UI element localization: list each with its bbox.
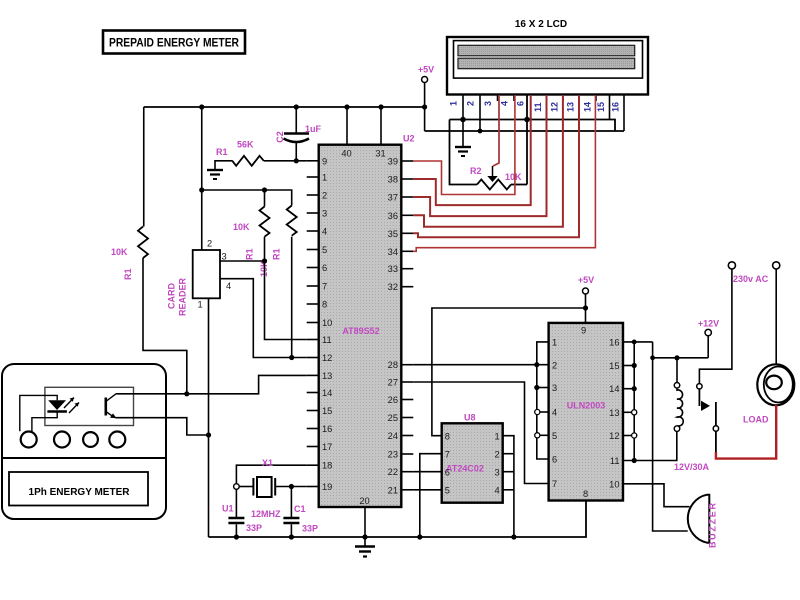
svg-text:6: 6 xyxy=(445,468,450,478)
wire LCD pin15 xyxy=(609,95,611,120)
svg-text:5: 5 xyxy=(552,431,557,441)
svg-text:U8: U8 xyxy=(464,413,476,423)
svg-text:U2: U2 xyxy=(403,134,415,144)
wire MCU pin20 to gnd xyxy=(364,507,366,546)
svg-text:C2: C2 xyxy=(275,131,285,143)
wire eeprom pins 1-4 to gnd xyxy=(503,436,514,537)
capacitor U1 33P xyxy=(222,489,262,537)
LCD pin labels 1 2 3 4 6 11 12 13 14 15 16 xyxy=(449,101,621,112)
svg-text:16 X 2 LCD: 16 X 2 LCD xyxy=(515,19,567,30)
wire +5V branch to eeprom pin8 xyxy=(432,308,586,436)
wire left pullup branch from +5V rail xyxy=(143,107,145,227)
svg-text:14: 14 xyxy=(322,388,332,398)
svg-text:13: 13 xyxy=(609,408,619,418)
optocoupler box xyxy=(45,387,134,425)
svg-text:U1: U1 xyxy=(222,504,234,514)
svg-text:6: 6 xyxy=(552,455,557,465)
wire MCU pin21 to eeprom pin5 xyxy=(413,489,441,491)
lamp LOAD xyxy=(743,364,794,424)
svg-text:4: 4 xyxy=(495,486,500,496)
svg-text:1: 1 xyxy=(552,338,557,348)
svg-text:4: 4 xyxy=(226,281,231,291)
eeprom U8 AT24C02 xyxy=(442,413,503,503)
ground under LCD pin1 xyxy=(455,120,471,157)
svg-text:8: 8 xyxy=(322,300,327,310)
svg-text:16: 16 xyxy=(611,102,621,112)
svg-text:10: 10 xyxy=(322,318,332,328)
wire pullup B down xyxy=(291,237,293,358)
svg-text:4: 4 xyxy=(552,408,557,418)
svg-text:+12V: +12V xyxy=(698,319,719,329)
MCU right pin stubs xyxy=(401,161,413,490)
svg-text:15: 15 xyxy=(322,406,332,416)
svg-text:1Ph ENERGY METER: 1Ph ENERGY METER xyxy=(29,487,131,498)
svg-text:X1: X1 xyxy=(262,458,273,468)
node ULN pin4 terminal xyxy=(535,409,540,414)
svg-text:36: 36 xyxy=(388,211,398,221)
svg-text:21: 21 xyxy=(388,485,398,495)
svg-text:1: 1 xyxy=(322,173,327,183)
svg-text:18: 18 xyxy=(322,461,332,471)
svg-text:1: 1 xyxy=(449,101,459,106)
svg-text:38: 38 xyxy=(388,175,398,185)
svg-text:6: 6 xyxy=(516,101,526,106)
MCU right pin numbers xyxy=(388,157,398,496)
svg-text:R1: R1 xyxy=(123,268,133,280)
MCU left pin stubs xyxy=(307,161,319,487)
svg-text:11: 11 xyxy=(533,102,543,112)
wire LCD pin3 contrast (red) to pot wiper xyxy=(493,95,499,166)
wire opto collector to MCU pin13 xyxy=(116,375,307,393)
wire red data bus MCU pin37 to LCD pin11 xyxy=(413,95,546,216)
svg-text:40: 40 xyxy=(341,149,351,159)
capacitor C2 1uF xyxy=(275,107,322,161)
svg-text:230v AC: 230v AC xyxy=(733,274,769,284)
wire gnd rail A under LCD xyxy=(450,120,616,132)
svg-text:17: 17 xyxy=(322,442,332,452)
relay coil 12V/30A xyxy=(674,383,710,473)
wire red data bus MCU pin39 to LCD pin4 xyxy=(413,95,515,195)
svg-text:7: 7 xyxy=(552,479,557,489)
wire MCU pin28 to ULN pin2 xyxy=(413,364,548,366)
svg-text:C1: C1 xyxy=(294,504,306,514)
svg-text:11: 11 xyxy=(610,456,620,466)
svg-text:39: 39 xyxy=(388,157,398,167)
svg-text:12V/30A: 12V/30A xyxy=(674,462,710,472)
svg-text:5: 5 xyxy=(322,245,327,255)
energy meter enclosure xyxy=(2,364,166,519)
svg-text:READER: READER xyxy=(178,277,188,316)
svg-text:R1: R1 xyxy=(245,248,255,260)
node +5V terminal above ULN xyxy=(578,275,594,323)
wire 230v line to relay switch xyxy=(699,269,732,384)
wire 230v neutral to load xyxy=(775,269,777,365)
svg-text:8: 8 xyxy=(445,432,450,442)
1Ph ENERGY METER label box xyxy=(9,472,148,506)
svg-text:24: 24 xyxy=(388,431,398,441)
wire pullup A to MCU pin11 xyxy=(265,237,307,340)
svg-text:2: 2 xyxy=(552,361,557,371)
svg-text:5: 5 xyxy=(445,486,450,496)
svg-text:19: 19 xyxy=(322,482,332,492)
svg-text:3: 3 xyxy=(552,383,557,393)
node +5V terminal near LCD xyxy=(418,65,434,132)
svg-text:R2: R2 xyxy=(470,166,482,176)
svg-text:34: 34 xyxy=(388,247,398,257)
svg-text:16: 16 xyxy=(609,338,619,348)
svg-text:AT89S52: AT89S52 xyxy=(342,326,379,336)
wire red data bus MCU pin34 to LCD pin14 xyxy=(413,95,595,251)
wire opto emitter to gnd xyxy=(116,418,209,435)
MCU left pin numbers xyxy=(322,156,332,492)
wire ULN pin11 to relay coil xyxy=(623,432,677,461)
svg-text:2: 2 xyxy=(495,450,500,460)
driver ULN2003 xyxy=(549,323,623,501)
wire ULN pin10 to buzzer xyxy=(623,484,690,507)
crystal X1 12MHZ xyxy=(239,458,307,519)
wire LED anode to meter terminal1 xyxy=(20,395,57,431)
svg-text:10K: 10K xyxy=(111,247,128,257)
svg-text:20: 20 xyxy=(359,496,369,506)
svg-text:AT24C02: AT24C02 xyxy=(446,464,484,474)
svg-text:3: 3 xyxy=(322,209,327,219)
relay switch contact xyxy=(697,384,719,432)
svg-text:33P: 33P xyxy=(246,523,262,533)
wire card pin1 to gnd rail xyxy=(208,298,210,537)
svg-text:23: 23 xyxy=(388,450,398,460)
svg-text:10: 10 xyxy=(609,480,619,490)
title box PREPAID ENERGY METER xyxy=(103,31,245,54)
svg-text:7: 7 xyxy=(322,282,327,292)
wire card +5V branch xyxy=(201,107,203,250)
resistor R1 56K xyxy=(215,140,307,170)
svg-text:13: 13 xyxy=(322,371,332,381)
wire red data bus MCU pin35 to LCD pin13 xyxy=(413,95,579,237)
wire ULN right bracket pins 16-11 xyxy=(623,342,653,461)
svg-text:15: 15 xyxy=(609,361,619,371)
svg-text:9: 9 xyxy=(581,326,586,336)
svg-text:12: 12 xyxy=(322,353,332,363)
svg-text:15: 15 xyxy=(596,102,606,112)
wire pullup top rail xyxy=(202,190,292,206)
wire red data bus MCU pin36 to LCD pin12 xyxy=(413,95,563,227)
card reader connector xyxy=(167,239,232,317)
svg-text:32: 32 xyxy=(388,282,398,292)
microcontroller U2 AT89S52 xyxy=(319,134,415,508)
optocoupler LED xyxy=(47,398,79,414)
wire red relay contact to load xyxy=(715,431,717,452)
svg-text:33P: 33P xyxy=(302,524,318,534)
resistor R1 10K pullup B xyxy=(259,206,297,278)
wire MCU pin40 supply stub xyxy=(346,107,348,145)
wire MCU pin27 to ULN pin7 xyxy=(413,382,548,484)
wire +5V rail B under LCD xyxy=(425,130,624,132)
potentiometer R2 10K xyxy=(450,95,528,190)
svg-text:LOAD: LOAD xyxy=(743,415,769,425)
svg-text:+5V: +5V xyxy=(578,275,594,285)
capacitor C1 33P xyxy=(283,487,318,538)
wire red data bus MCU pin38 to LCD pin6 xyxy=(413,95,530,205)
wire gnd bottom rail xyxy=(209,501,587,538)
svg-text:8: 8 xyxy=(583,489,588,499)
svg-text:22: 22 xyxy=(388,467,398,477)
svg-text:PREPAID ENERGY METER: PREPAID ENERGY METER xyxy=(109,38,240,50)
resistor R1 10K left vertical xyxy=(111,227,148,281)
node crystal left terminal xyxy=(234,484,240,490)
svg-text:ULN2003: ULN2003 xyxy=(567,401,606,411)
wire +12V rail xyxy=(653,357,709,359)
svg-text:2: 2 xyxy=(207,239,212,249)
svg-text:10K: 10K xyxy=(233,222,250,232)
svg-text:3: 3 xyxy=(222,252,227,262)
svg-text:10K: 10K xyxy=(505,172,522,182)
resistor R1 10K pullup A xyxy=(233,207,270,261)
wire left pullup to opto collector node xyxy=(143,258,187,394)
wire MCU pin22 to eeprom pin6 xyxy=(413,471,441,473)
svg-text:CARD: CARD xyxy=(167,283,177,309)
svg-text:37: 37 xyxy=(388,193,398,203)
wire LCD pin stubs xyxy=(498,95,597,102)
svg-text:2: 2 xyxy=(322,191,327,201)
wire relay coil top to +12V xyxy=(676,358,678,383)
LCD module 16 X 2 LCD xyxy=(447,19,648,95)
node ULN pin12 terminal xyxy=(632,433,637,438)
wire +12V to ULN pin16 and buzzer xyxy=(653,342,688,531)
optocoupler phototransistor xyxy=(106,394,117,418)
meter terminal circles xyxy=(21,432,126,448)
wire MCU pin31 supply stub xyxy=(380,107,382,145)
svg-text:13: 13 xyxy=(566,102,576,112)
svg-text:12: 12 xyxy=(609,431,619,441)
svg-text:31: 31 xyxy=(375,149,385,159)
wire pullup A top lead xyxy=(264,190,266,207)
svg-text:28: 28 xyxy=(388,360,398,370)
svg-text:3: 3 xyxy=(495,468,500,478)
svg-text:2: 2 xyxy=(466,101,476,106)
wire LCD pin2 to +5V rail xyxy=(479,95,481,132)
svg-text:35: 35 xyxy=(388,229,398,239)
svg-text:4: 4 xyxy=(322,227,327,237)
wire ULN left bracket pins 1-6 xyxy=(537,342,549,459)
svg-text:26: 26 xyxy=(388,395,398,405)
wire eeprom pin7 to gnd xyxy=(420,454,442,537)
wire card pin3 xyxy=(220,260,265,262)
svg-text:+5V: +5V xyxy=(418,65,434,75)
wire LED cathode to meter terminal xyxy=(32,413,57,432)
svg-text:27: 27 xyxy=(388,378,398,388)
svg-text:14: 14 xyxy=(583,102,593,112)
svg-text:56K: 56K xyxy=(237,140,254,150)
svg-text:16: 16 xyxy=(322,424,332,434)
wire LCD pin1 to gnd rail xyxy=(462,95,464,120)
svg-text:1uF: 1uF xyxy=(305,124,322,134)
svg-text:7: 7 xyxy=(445,450,450,460)
svg-text:1: 1 xyxy=(198,300,203,310)
svg-text:12MHZ: 12MHZ xyxy=(251,509,281,519)
svg-text:3: 3 xyxy=(483,101,493,106)
svg-text:25: 25 xyxy=(388,413,398,423)
wire card pin4 to MCU pin12 xyxy=(220,279,307,358)
svg-text:R1: R1 xyxy=(216,147,228,157)
wire +5V top rail xyxy=(144,106,425,108)
node +12V terminal xyxy=(698,319,719,358)
svg-text:33: 33 xyxy=(388,264,398,274)
ground at R1 56K xyxy=(207,170,223,179)
node ULN pin13 terminal xyxy=(632,410,637,415)
svg-text:12: 12 xyxy=(550,102,560,112)
ground at MCU pin20 xyxy=(355,547,375,557)
svg-text:6: 6 xyxy=(322,263,327,273)
wire LCD pin16 xyxy=(623,95,625,132)
svg-text:11: 11 xyxy=(322,335,332,345)
svg-text:4: 4 xyxy=(500,101,510,106)
node 230v AC terminals xyxy=(728,262,780,284)
svg-text:1: 1 xyxy=(495,432,500,442)
buzzer BUZZER xyxy=(688,495,718,548)
svg-text:R1: R1 xyxy=(272,248,282,260)
node ULN pin5 terminal xyxy=(535,433,540,438)
svg-text:14: 14 xyxy=(609,384,619,394)
svg-text:9: 9 xyxy=(322,156,327,166)
wire MCU pin18 to crystal xyxy=(236,465,306,484)
